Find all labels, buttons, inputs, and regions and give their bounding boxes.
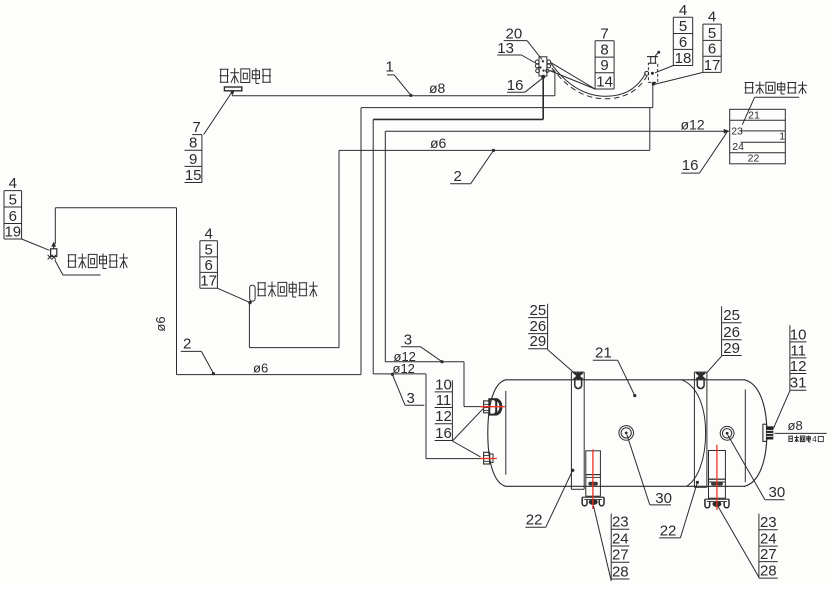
leader L to right drain: [718, 506, 759, 578]
svg-text:3: 3: [404, 332, 412, 349]
leader to callout A: [204, 93, 232, 135]
svg-text:27: 27: [612, 547, 629, 564]
label ø6 vertical: [153, 316, 168, 331]
leader D to U2: [550, 63, 596, 89]
callout 23/24/27/28 right: [759, 514, 778, 580]
wire bus3 drop left: [372, 119, 374, 374]
hose coil solid: [551, 63, 646, 96]
svg-text:30: 30: [769, 484, 786, 501]
tank left dome: [488, 380, 506, 487]
leader J to right bolt: [707, 356, 722, 373]
label 3 lower: [391, 373, 425, 407]
red centerline upper left: [480, 406, 505, 408]
svg-text:10: 10: [790, 326, 807, 343]
hose coil dashed: [552, 68, 647, 99]
wire ø8 riser to valve U2: [549, 71, 555, 96]
wire horn down leg: [176, 208, 178, 375]
port 30 left: [619, 426, 634, 441]
svg-text:ø6: ø6: [253, 361, 268, 376]
label 16 at valve: [681, 132, 727, 174]
wire ø8 main line from clutch cylinder: [232, 95, 555, 97]
svg-text:2: 2: [183, 336, 191, 353]
svg-text:24: 24: [760, 531, 777, 548]
callout 7/8/9/15: [185, 119, 202, 184]
callout 4/5/6/18: [673, 2, 692, 67]
svg-text:ø8: ø8: [429, 80, 446, 96]
wire bus2 riser to valve U3: [652, 84, 654, 108]
svg-text:8: 8: [189, 135, 197, 152]
label 接干燥器4口: [788, 435, 823, 444]
leader under horn label: [55, 260, 101, 275]
svg-text:4: 4: [204, 225, 212, 242]
svg-text:21: 21: [595, 345, 612, 362]
svg-text:5: 5: [204, 241, 212, 258]
valve U2 bottom junction: [541, 75, 545, 79]
svg-text:25: 25: [723, 307, 740, 324]
label 四回路保护阀: [745, 82, 807, 95]
svg-text:ø8: ø8: [788, 418, 803, 433]
leader E to U3: [655, 66, 673, 73]
svg-text:17: 17: [200, 273, 217, 290]
wire horn valve riser: [54, 208, 56, 244]
red centerline drain left: [592, 449, 594, 509]
label 13: [497, 40, 536, 64]
svg-text:22: 22: [526, 512, 543, 529]
svg-text:23: 23: [760, 514, 777, 531]
svg-text:2: 2: [454, 168, 462, 185]
svg-text:21: 21: [748, 109, 760, 121]
label ø6 on horn line: [253, 361, 268, 376]
red centerline drain right: [716, 445, 718, 510]
svg-text:5: 5: [679, 18, 687, 35]
svg-text:6: 6: [9, 208, 17, 225]
svg-text:10: 10: [435, 376, 452, 393]
callout 4/5/6/17 exhaust: [200, 225, 218, 289]
wire bus2 drop to horn line: [360, 108, 362, 375]
leader I to left bolt: [548, 350, 575, 373]
label 30 left: [627, 435, 672, 508]
wire ø12 lower tank pipe H: [373, 373, 426, 375]
svg-text:23: 23: [612, 514, 629, 531]
wire ø12 drop left: [384, 131, 386, 362]
svg-text:ø6: ø6: [430, 135, 447, 151]
wire bus line 3 (thick): [373, 118, 543, 120]
svg-text:22: 22: [748, 153, 760, 165]
label 排气制动蝶阀: [257, 282, 317, 298]
wire ø12 lower tank pipe V: [425, 374, 427, 459]
svg-text:30: 30: [655, 490, 672, 507]
leader K to left drain: [594, 506, 612, 581]
svg-text:6: 6: [708, 41, 716, 58]
svg-text:1: 1: [386, 59, 394, 76]
svg-text:ø12: ø12: [681, 116, 705, 132]
arrow into port 23: [724, 129, 730, 134]
svg-text:18: 18: [675, 50, 692, 67]
valve U3 body: [647, 51, 660, 83]
valve U2 ports: [535, 60, 550, 73]
svg-text:3: 3: [407, 390, 415, 407]
svg-text:6: 6: [204, 257, 212, 274]
svg-text:25: 25: [530, 302, 547, 319]
leader B to horn valve: [22, 239, 50, 250]
svg-text:19: 19: [4, 223, 21, 240]
svg-text:4: 4: [679, 2, 687, 19]
leaders G to ports: [452, 409, 483, 457]
callout 23/24/27/28 left: [611, 514, 629, 581]
strap 22 left: [571, 372, 584, 489]
svg-text:ø12: ø12: [393, 361, 415, 376]
label ø8 on main line: [429, 80, 446, 96]
svg-text:8: 8: [600, 42, 608, 59]
svg-text:6: 6: [679, 34, 687, 51]
fitting right port: [763, 424, 773, 441]
protection valve box: [730, 109, 786, 164]
protection valve port labels: [731, 109, 785, 164]
fitting upper left port: [484, 399, 501, 414]
drain valve left: [582, 451, 604, 506]
leader C to exhaust valve: [217, 288, 251, 304]
leader F to U3: [655, 72, 703, 84]
label ø12 pipe2: [393, 361, 415, 376]
wire bus line 2 (horn/exhaust supply): [361, 107, 653, 109]
callout 10/11/12/16: [435, 376, 453, 442]
underline and leader protection valve: [742, 97, 799, 124]
svg-text:ø6: ø6: [153, 316, 168, 331]
label 1: [386, 59, 413, 98]
label 30 right: [728, 435, 785, 501]
svg-text:24: 24: [612, 530, 629, 547]
exhaust brake butterfly valve: [250, 285, 255, 301]
tank right dome: [745, 380, 767, 487]
svg-text:16: 16: [507, 77, 524, 94]
wire exhaust-brake valve drop: [248, 303, 250, 348]
svg-text:31: 31: [790, 375, 807, 392]
svg-text:16: 16: [435, 425, 452, 442]
svg-text:23: 23: [731, 125, 743, 137]
svg-text:9: 9: [600, 57, 608, 74]
callout 25/26/29 left: [528, 302, 547, 350]
label 离合器分泵: [220, 68, 271, 84]
svg-text:5: 5: [708, 25, 716, 42]
label 21 tank: [593, 345, 637, 398]
wire ø12 lower tank pipe to port: [426, 458, 481, 460]
svg-text:4: 4: [812, 435, 817, 444]
svg-text:1: 1: [779, 131, 785, 143]
svg-text:27: 27: [760, 546, 777, 563]
wire ø6 bus line: [339, 149, 650, 151]
label 3 upper: [401, 332, 444, 364]
wire ø6 drop to exhaust-brake loop: [338, 150, 340, 347]
valve U3 ports: [645, 71, 656, 85]
valve U2 body: [539, 57, 547, 76]
label ø12 pipe1: [394, 349, 416, 364]
strap 22 right: [694, 372, 707, 487]
svg-text:7: 7: [192, 119, 200, 136]
svg-text:24: 24: [732, 141, 744, 153]
wire horn top run: [55, 207, 176, 209]
air tank body: [505, 380, 745, 487]
svg-text:28: 28: [612, 563, 629, 580]
wire bus3 riser to valve U2 (thick): [542, 77, 544, 120]
callout 4/5/6/17 right: [703, 9, 721, 74]
drain valve right: [705, 451, 729, 508]
label 2 left: [181, 336, 215, 376]
svg-text:28: 28: [760, 563, 777, 580]
wire ø12 main line to protection valve: [385, 130, 726, 132]
strap bolt right: [696, 372, 705, 389]
label 20: [504, 26, 542, 60]
callout 7/8/9/14: [595, 25, 614, 90]
label ø8 dryer: [775, 418, 827, 433]
wire ø12 upper tank pipe H: [385, 361, 464, 363]
svg-text:26: 26: [723, 324, 740, 341]
fitting lower left port: [484, 452, 493, 464]
strap bolt left: [574, 372, 583, 389]
svg-text:7: 7: [600, 25, 608, 42]
air horn solenoid valve: [48, 242, 57, 260]
svg-text:22: 22: [660, 522, 677, 539]
label ø6 on bus: [430, 135, 447, 151]
wire exhaust-brake loop bottom: [249, 347, 339, 349]
svg-text:5: 5: [9, 191, 17, 208]
callout 10/11/12/31: [790, 325, 807, 391]
label 16 at U2: [507, 77, 543, 94]
label 22 left: [525, 469, 574, 529]
red centerline lower left: [480, 458, 497, 460]
callout 25/26/29 right: [722, 306, 742, 357]
svg-text:15: 15: [185, 167, 202, 184]
svg-text:13: 13: [497, 40, 514, 57]
svg-text:29: 29: [723, 340, 740, 357]
label 气喇叭电磁阀: [68, 254, 128, 269]
svg-text:11: 11: [790, 342, 806, 359]
svg-text:14: 14: [596, 73, 613, 90]
label 22 right: [659, 481, 699, 540]
svg-text:17: 17: [704, 57, 721, 74]
svg-text:4: 4: [9, 175, 17, 192]
svg-text:29: 29: [530, 333, 547, 350]
svg-text:9: 9: [189, 151, 197, 168]
svg-text:12: 12: [790, 358, 807, 375]
wire ø12 upper tank pipe V: [463, 362, 465, 407]
svg-text:11: 11: [436, 392, 452, 409]
leader H to right fitting: [773, 391, 790, 429]
tank middle head arc: [682, 380, 706, 487]
callout 4/5/6/19: [4, 175, 22, 240]
port 30 right: [720, 426, 734, 440]
svg-text:16: 16: [682, 157, 699, 174]
clutch slave cylinder: [224, 87, 241, 96]
svg-text:12: 12: [435, 408, 452, 425]
tank right seam: [744, 389, 746, 482]
svg-text:4: 4: [708, 9, 716, 26]
label ø12 at valve: [681, 116, 705, 132]
wire ø6 riser joining bus2: [649, 108, 651, 151]
wire ø12 upper tank pipe to port: [464, 406, 484, 408]
wire ø6 horn long line: [177, 374, 362, 376]
tank left seam: [505, 391, 507, 475]
label 2 mid: [450, 149, 495, 185]
